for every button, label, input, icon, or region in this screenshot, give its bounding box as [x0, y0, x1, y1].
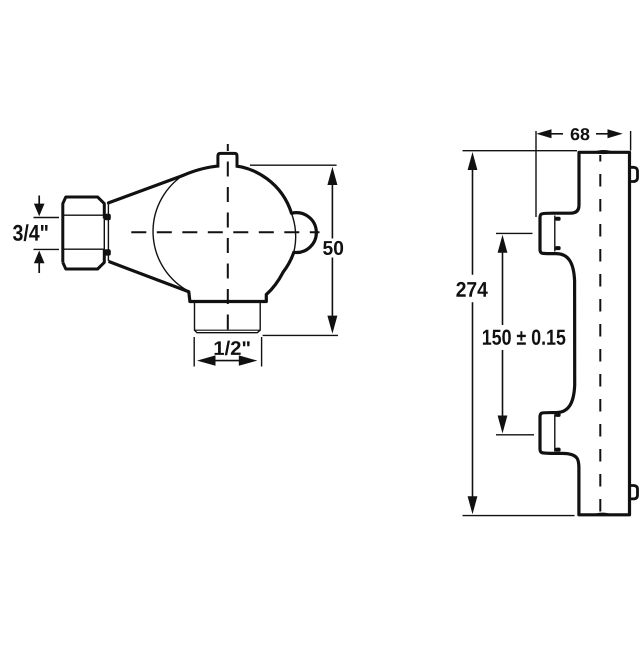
protrusion lower thin edge: [554, 415, 556, 452]
top lens bump: [592, 150, 616, 154]
dim 150 label: [483, 329, 565, 344]
dim 50 label: [323, 241, 343, 255]
valve body thick outline: [109, 165, 317, 301]
joint tab upper: [104, 214, 111, 220]
bar outline thick: [540, 152, 630, 515]
joint tab lower: [104, 249, 111, 255]
dim 3/4 extension lines: [34, 218, 60, 250]
dim 68 arrow left: [549, 133, 563, 135]
dim 1/2 arrowheads: [197, 355, 216, 365]
cone top line: [109, 175, 184, 203]
nut flat line upper: [64, 214, 104, 216]
nut flat line lower: [64, 248, 104, 250]
dim 274 label: [456, 282, 487, 297]
outlet chamfer line: [195, 329, 261, 331]
protrusion upper thin edge: [554, 216, 556, 252]
right tab upper: [631, 167, 638, 181]
nub upper-top: [555, 217, 560, 221]
top knob: [218, 153, 237, 167]
dim 68 extension lines: [536, 131, 631, 217]
dim 1/2 label: [215, 341, 250, 356]
nut right thin edge: [103, 218, 105, 250]
dim 68 label: [571, 128, 590, 140]
nub lower-top: [555, 413, 560, 417]
dim 274 extension lines: [463, 151, 578, 516]
dim 274 arrowheads: [468, 152, 478, 170]
dim 50 line: [331, 184, 333, 317]
dim 150 line: [502, 252, 504, 417]
hex nut outline upper: [63, 197, 105, 262]
horizontal centerline: [131, 231, 319, 233]
right tab lower: [631, 486, 638, 499]
dim 50 arrowheads: [327, 167, 337, 185]
dim 3/4 arrowheads: [34, 204, 45, 217]
dim 3/4 arrow up shaft: [38, 196, 40, 274]
bar centerline: [599, 155, 601, 515]
valve ball thin left arc: [153, 174, 189, 291]
bottom lens bump: [592, 513, 612, 516]
hex nut outline lower: [63, 250, 105, 270]
dim 1/2 extension lines: [194, 337, 261, 367]
dim 150 arrowheads: [498, 235, 508, 253]
dim 1/2 arrow line: [210, 360, 245, 362]
dim 150 extension lines: [496, 233, 534, 434]
valve ball thin arc behind bump: [292, 213, 296, 252]
outlet cylinder: [195, 303, 261, 333]
dim 274 line: [472, 169, 474, 497]
dim 3/4 label: [13, 224, 48, 241]
cone left thin edge: [107, 204, 109, 262]
nub upper-bottom: [555, 246, 560, 250]
dim 68 arrow right: [596, 133, 610, 135]
vertical centerline: [227, 144, 229, 332]
nub lower-bottom: [555, 448, 560, 452]
dim 50 extension lines: [250, 165, 338, 335]
